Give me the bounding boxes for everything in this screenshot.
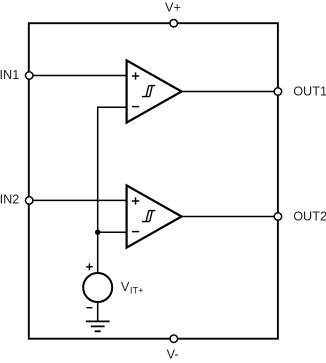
svg-text:V-: V- (167, 348, 179, 362)
VIT+ polarity - mark (87, 307, 93, 309)
svg-text:IN2: IN2 (0, 193, 19, 207)
wire U2 - input horizontal (98, 231, 127, 233)
svg-text:V+: V+ (165, 1, 181, 15)
svg-text:OUT2: OUT2 (293, 210, 326, 224)
wire IN1 to U1 + input (29, 75, 126, 77)
svg-text:IN1: IN1 (0, 68, 19, 82)
wire U2 output to OUT2 (182, 216, 278, 218)
wire U1 - input horizontal (98, 106, 127, 108)
U2 hysteresis symbol (142, 211, 155, 222)
U1 hysteresis symbol (142, 86, 155, 97)
wire source to ground (97, 302, 99, 322)
U2 + input mark (132, 197, 139, 204)
U1 - input mark (132, 106, 139, 108)
U2 - input mark (132, 231, 139, 233)
svg-text:IT+: IT+ (130, 285, 144, 295)
svg-text:OUT1: OUT1 (293, 85, 326, 99)
VIT+ polarity + mark (86, 263, 93, 270)
terminal IN1 (25, 72, 33, 80)
voltage source VIT+ (83, 273, 112, 302)
terminal V+ (170, 19, 178, 27)
svg-text:V: V (121, 280, 130, 294)
terminal OUT2 (274, 213, 282, 221)
U1 + input mark (132, 72, 139, 79)
op-amp U2 (127, 185, 182, 247)
wire U1 output to OUT1 (182, 91, 278, 93)
terminal OUT1 (274, 88, 282, 96)
node junction dot (95, 230, 100, 235)
ground (86, 321, 110, 331)
op-amp U1 (127, 60, 182, 122)
outer box (29, 23, 278, 339)
wire IN2 to U2 + input (29, 199, 126, 201)
terminal V- (170, 335, 178, 343)
terminal IN2 (25, 197, 33, 205)
wire vertical VIT+ net (97, 106, 99, 273)
